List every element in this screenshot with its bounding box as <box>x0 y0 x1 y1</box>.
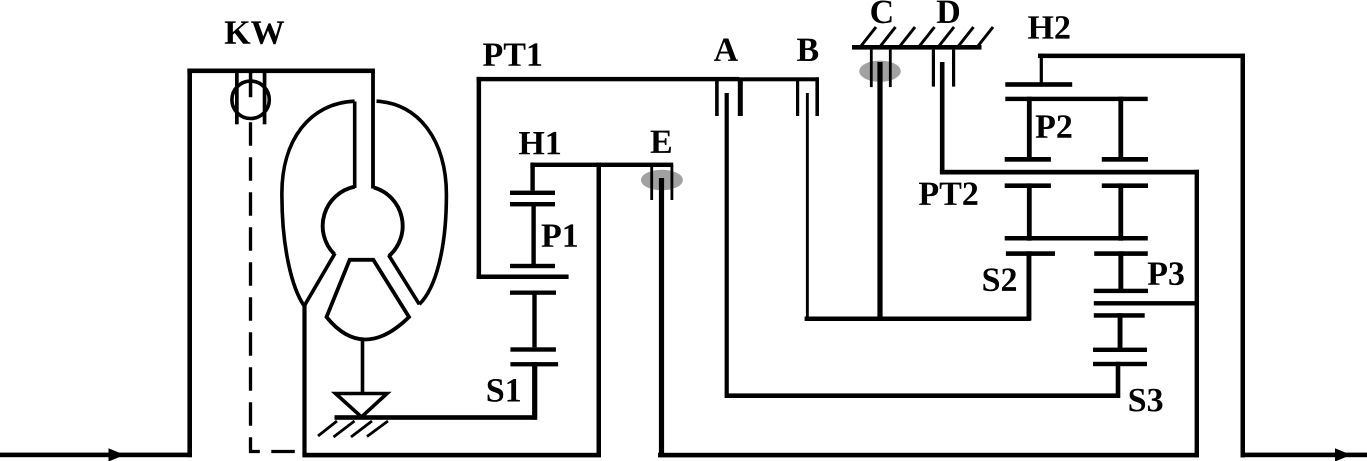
gear bar P2 bottom right <box>1102 157 1148 162</box>
turbine hub circle left arc <box>323 187 355 255</box>
KW label <box>225 21 284 44</box>
H1 top line <box>530 163 673 167</box>
clutch A right prong <box>738 79 743 116</box>
label S2 <box>983 268 1016 291</box>
clutch E gray pad <box>641 170 683 191</box>
brake D right prong <box>952 50 955 87</box>
gear bar S2 right <box>1094 251 1148 256</box>
brake D left prong <box>932 50 935 87</box>
gear bar PT2 lower left <box>1005 183 1051 188</box>
gear bar H1 <box>510 191 555 195</box>
gear bar S1 upper <box>510 347 556 351</box>
C shaft <box>877 62 882 321</box>
converter output diagonal left <box>304 253 335 305</box>
torque converter shell right arc <box>377 101 447 304</box>
gear bar P1 top <box>510 202 555 206</box>
gear bar S3 lower <box>1093 362 1147 366</box>
clutch E left prong <box>650 165 653 200</box>
H1 output shaft <box>597 163 602 457</box>
label P1 <box>542 224 577 246</box>
PT1 carrier bar <box>477 275 569 280</box>
brake support hatch 4 <box>920 27 935 46</box>
clutch B right prong <box>815 77 819 116</box>
gear bar P1 bottom <box>510 264 555 268</box>
label A <box>714 38 738 60</box>
right pin lower <box>1118 251 1123 291</box>
D shaft <box>940 62 945 173</box>
gear bar S1 lower <box>510 362 558 366</box>
gear bar S2 left <box>1006 251 1055 256</box>
gear bar P1-S1 upper <box>510 291 556 295</box>
S2 drop shaft <box>1027 251 1032 320</box>
A shaft <box>725 93 729 398</box>
converter diagonal right <box>389 255 420 304</box>
brake C left prong <box>870 50 873 88</box>
PT1 top line <box>477 77 740 81</box>
housing hatch 1 <box>318 421 337 436</box>
label B <box>797 39 818 61</box>
brake support hatch 1 <box>861 27 876 46</box>
P1 shaft <box>531 202 535 264</box>
gear bar H2 <box>1005 82 1072 87</box>
KW dashed axis <box>251 122 302 451</box>
KW axis solid segment <box>249 71 253 97</box>
converter output vertical <box>302 305 306 455</box>
gear bar S3 upper <box>1093 348 1147 352</box>
H1 drop <box>530 163 534 191</box>
PT2 line <box>940 170 1199 175</box>
turbine shaft <box>371 70 375 189</box>
S3 line <box>727 393 1120 398</box>
output arrow <box>1335 448 1351 461</box>
gear bar P2 top long <box>1005 97 1147 101</box>
stator stem <box>361 339 365 394</box>
label C <box>871 0 891 23</box>
E shaft <box>659 178 664 457</box>
label S3 <box>1130 389 1163 412</box>
label PT2 <box>919 182 977 205</box>
brake support hatch 5 <box>939 27 954 46</box>
brake C right prong <box>889 50 892 88</box>
clutch B left prong <box>796 79 799 116</box>
PT1 vertical <box>477 77 482 279</box>
clutch E right prong <box>671 165 674 200</box>
housing hatch 3 <box>351 421 372 437</box>
label D <box>937 1 959 23</box>
brake support line <box>852 45 982 50</box>
turbine fork left line <box>353 102 357 189</box>
B-C-S2 line <box>805 317 1031 322</box>
label P3 <box>1148 262 1184 285</box>
B shaft <box>806 93 809 320</box>
KW pulley circle <box>232 81 269 118</box>
turbine hub circle right arc <box>374 188 403 257</box>
H2 right vertical <box>1241 54 1246 458</box>
gear bar PT2 lower right <box>1102 183 1148 188</box>
S3 drop shaft <box>1116 362 1121 398</box>
gear bar P3 lower <box>1094 313 1145 318</box>
bottom line converter to H1 <box>302 453 601 458</box>
brake support hatch 3 <box>900 27 915 46</box>
P3 output vertical <box>1195 170 1199 458</box>
S1 ground line <box>335 415 537 420</box>
torque converter shell left arc <box>282 101 355 305</box>
P3 line <box>1094 301 1199 305</box>
brake support hatch 7 <box>978 27 993 46</box>
label P2 <box>1036 115 1072 138</box>
H2 drop <box>1040 54 1043 87</box>
housing hatch 2 <box>334 421 355 437</box>
housing triangle <box>336 394 388 418</box>
clutch A left prong <box>715 79 719 116</box>
gear bar P3 upper <box>1094 289 1148 293</box>
P1-S1 shaft <box>532 291 536 348</box>
gear bar long mid <box>1005 236 1148 241</box>
input top line <box>187 69 375 74</box>
brake C gray pad <box>859 61 901 82</box>
P3 pin <box>1118 313 1123 352</box>
output bottom line <box>1241 453 1367 458</box>
right pin mid <box>1118 183 1123 240</box>
brake support hatch 6 <box>959 27 974 46</box>
gear bar P2 bottom left <box>1005 157 1051 162</box>
S1 shaft <box>532 362 537 420</box>
brake support hatch 2 <box>881 27 896 46</box>
label H2 <box>1028 16 1069 39</box>
label H1 <box>519 132 560 154</box>
H2 top line <box>1038 54 1245 59</box>
housing hatch 4 <box>367 421 388 437</box>
input arrow <box>109 448 125 461</box>
P2 right pin <box>1118 97 1123 162</box>
KW right belt tick <box>263 71 267 124</box>
P2 left pin <box>1027 97 1032 162</box>
label E <box>651 131 671 153</box>
left pin mid <box>1027 183 1032 240</box>
input bottom line <box>0 453 192 458</box>
input left vertical <box>187 69 192 458</box>
label S1 <box>488 379 520 402</box>
label PT1 <box>483 43 541 65</box>
KW left belt tick <box>235 71 239 124</box>
A-B link line <box>739 77 819 81</box>
stator sector <box>327 260 410 340</box>
bottom line E to P3 <box>658 453 1198 458</box>
